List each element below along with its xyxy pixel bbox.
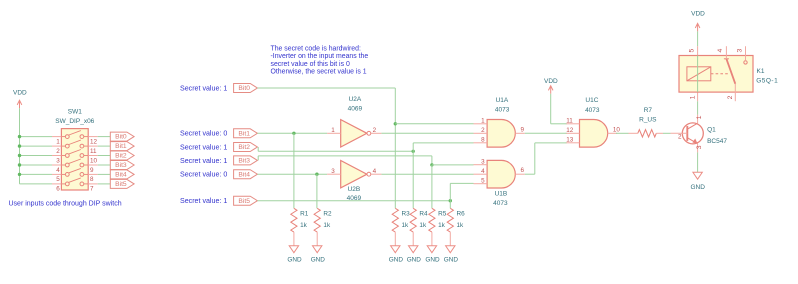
SW1 switch element 4 xyxy=(61,164,65,166)
wire Bit1 to U2A input xyxy=(257,132,327,134)
wire R5 column xyxy=(431,165,433,208)
svg-text:3: 3 xyxy=(331,168,335,175)
svg-text:3: 3 xyxy=(56,157,60,164)
svg-text:4: 4 xyxy=(56,167,60,174)
wire VDD through relay (coil column) xyxy=(697,56,699,93)
U2A pin 2 (output) xyxy=(371,132,382,134)
wire Bit0 vertical down R3 column xyxy=(394,88,396,208)
wire Bit0 horizontal xyxy=(257,87,395,89)
hierarchical label Bit2 (at SW1) xyxy=(110,151,134,160)
junction VDD bus row4 xyxy=(18,163,21,166)
relay pin 4 xyxy=(725,46,727,59)
svg-text:6: 6 xyxy=(521,167,525,174)
svg-text:Bit4: Bit4 xyxy=(115,172,127,179)
op-amp/inverter U2B 4069 xyxy=(341,161,367,188)
resistor R6 1k xyxy=(447,208,453,232)
Q1 pin 1 (collector) xyxy=(687,123,697,129)
svg-text:Bit2: Bit2 xyxy=(238,144,250,151)
wire SW1 pin 8 to label Bit4 xyxy=(98,173,111,175)
svg-text:Secret value: 1: Secret value: 1 xyxy=(180,157,227,165)
svg-text:3: 3 xyxy=(696,145,703,149)
relay contact circle + pin 3 xyxy=(744,61,747,64)
svg-text:2: 2 xyxy=(373,127,377,134)
resistor R7 R_US xyxy=(629,132,638,134)
svg-text:5: 5 xyxy=(481,177,485,184)
junction Bit3/R5 xyxy=(430,163,433,166)
svg-text:1k: 1k xyxy=(402,222,410,229)
hierarchical label Bit0 (logic side) xyxy=(234,84,258,93)
wire VDD down to U1C pin 11 row xyxy=(550,94,552,124)
svg-text:10: 10 xyxy=(613,126,621,133)
wire U1B output right xyxy=(525,173,535,175)
svg-text:Bit4: Bit4 xyxy=(238,171,250,178)
wire to U1C pin 13 xyxy=(535,142,567,144)
svg-text:2: 2 xyxy=(481,127,485,134)
U1C pin 13 (input) xyxy=(566,142,580,144)
wire R4 to GND xyxy=(412,232,414,246)
svg-text:3: 3 xyxy=(736,48,743,52)
svg-text:1k: 1k xyxy=(438,222,446,229)
svg-text:R1: R1 xyxy=(300,211,309,218)
svg-text:GND: GND xyxy=(690,184,705,191)
svg-text:GND: GND xyxy=(425,257,440,264)
svg-text:4073: 4073 xyxy=(493,200,508,207)
svg-text:-Inverter on the input means t: -Inverter on the input means the xyxy=(271,53,369,60)
SW1 pin 8 (right) xyxy=(88,173,98,175)
wire Bit3 down to U1B pin3 row xyxy=(431,156,433,165)
svg-text:Bit3: Bit3 xyxy=(115,162,127,169)
hierarchical label Bit4 (at SW1) xyxy=(110,170,134,179)
wire Bit5 horizontal xyxy=(257,200,450,202)
wire Bit2 jog at label xyxy=(257,147,259,151)
svg-text:U2A: U2A xyxy=(349,96,362,103)
svg-text:2: 2 xyxy=(56,148,60,155)
Q1 pin 2 (base) xyxy=(671,132,688,134)
svg-text:12: 12 xyxy=(90,138,98,145)
svg-text:11: 11 xyxy=(566,118,573,125)
U1C pin 10 (output) xyxy=(608,132,618,134)
transistor Q1 BC547 xyxy=(682,123,703,144)
ground symbol under Q1 xyxy=(693,172,702,179)
svg-text:BC547: BC547 xyxy=(707,138,727,145)
op-amp/inverter U2A 4069 xyxy=(341,120,367,147)
svg-text:Bit5: Bit5 xyxy=(238,198,250,205)
wire SW1 pin 10 to label Bit2 xyxy=(98,155,111,157)
SW1 switch element 5 xyxy=(61,173,65,175)
svg-text:1: 1 xyxy=(689,95,696,99)
ground symbol under R2 xyxy=(313,246,322,253)
svg-text:GND: GND xyxy=(389,257,404,264)
svg-text:R2: R2 xyxy=(323,211,332,218)
svg-text:Secret value: 0: Secret value: 0 xyxy=(180,171,227,179)
relay pin 5 xyxy=(697,46,699,55)
svg-text:5: 5 xyxy=(56,176,60,183)
svg-text:Otherwise, the secret value is: Otherwise, the secret value is 1 xyxy=(271,68,367,75)
Q1 pin 3 (emitter) xyxy=(687,138,697,144)
svg-text:VDD: VDD xyxy=(13,89,27,96)
wire Bit2 horizontal xyxy=(258,150,413,152)
svg-text:Bit5: Bit5 xyxy=(115,181,127,188)
SW1 switch element 6 xyxy=(61,183,65,185)
SW1 pin 2 (left) xyxy=(52,145,61,147)
wire to U1B pin 3 xyxy=(432,164,474,166)
resistor R3 1k xyxy=(392,208,398,232)
wire to U1A pin 1 xyxy=(395,123,473,125)
junction VDD bus row2 xyxy=(18,144,21,147)
wire Bit4 to U2B input xyxy=(257,173,327,175)
svg-text:R_US: R_US xyxy=(639,117,657,124)
svg-text:8: 8 xyxy=(481,137,485,144)
svg-text:7: 7 xyxy=(90,186,94,193)
wire R6 column xyxy=(449,201,451,209)
ground symbol under R1 xyxy=(289,246,298,253)
relay switch blade xyxy=(724,58,729,60)
wire VDD vertical bus to DIP switch inputs xyxy=(19,108,21,184)
junction Bit4/R2 xyxy=(315,173,318,176)
SW1 pin 1 (left) xyxy=(52,136,61,138)
svg-text:10: 10 xyxy=(90,157,98,164)
U1A pin 9 (output) xyxy=(515,132,525,134)
hierarchical label Bit3 (at SW1) xyxy=(110,161,134,170)
junction Bit0/U1A pin1 xyxy=(394,122,397,125)
hierarchical label Bit5 (logic side) xyxy=(234,196,258,205)
svg-text:1: 1 xyxy=(331,127,335,134)
wire Q1 collector to relay pin 1 xyxy=(697,101,699,114)
U1B pin 5 (input) xyxy=(474,183,488,185)
SW1 switch element 2 xyxy=(61,145,65,147)
wire Bit3 jog at label xyxy=(257,156,259,161)
svg-text:1: 1 xyxy=(696,115,703,119)
svg-text:4: 4 xyxy=(481,168,485,175)
svg-text:2: 2 xyxy=(727,95,734,99)
SW1 pin 4 (left) xyxy=(52,164,61,166)
svg-text:4: 4 xyxy=(717,48,724,52)
U2A pin 1 (input) xyxy=(327,132,341,134)
U2B pin 4 (output) xyxy=(371,173,382,175)
junction VDD bus row1 xyxy=(18,135,21,138)
svg-text:R5: R5 xyxy=(438,211,447,218)
svg-text:Secret value: 1: Secret value: 1 xyxy=(180,143,227,151)
svg-text:User inputs code through DIP s: User inputs code through DIP switch xyxy=(9,200,122,207)
svg-text:5: 5 xyxy=(688,48,695,52)
wire R6 to GND xyxy=(449,232,451,246)
wire Bit2 up to U1A pin8 row xyxy=(412,143,414,151)
svg-text:K1: K1 xyxy=(757,68,765,75)
svg-text:GND: GND xyxy=(444,257,459,264)
SW1 switch element 3 xyxy=(61,155,65,157)
SW1 pin 5 (left) xyxy=(52,173,61,175)
U2B pin 3 (input) xyxy=(327,173,341,175)
wire U2B output to U1B pin 4 xyxy=(381,173,473,175)
junction VDD bus row5 xyxy=(18,173,21,176)
wire R3 to GND xyxy=(394,232,396,246)
svg-text:Secret value: 1: Secret value: 1 xyxy=(180,197,227,205)
svg-text:6: 6 xyxy=(56,186,60,193)
svg-text:R3: R3 xyxy=(402,211,411,218)
relay coil xyxy=(687,67,711,81)
wire VDD to relay pin 5 xyxy=(697,31,699,46)
U1C pin 12 (input) xyxy=(566,132,580,134)
svg-text:GND: GND xyxy=(287,257,302,264)
relay K1 G5Q-1 body xyxy=(679,56,753,93)
svg-text:3: 3 xyxy=(481,158,485,165)
wire Bit5 up to U1B pin5 row xyxy=(449,183,451,200)
wire U1A output to U1C pin 12 xyxy=(525,132,567,134)
wire VDD branch row2 xyxy=(20,145,53,147)
svg-text:Q1: Q1 xyxy=(707,126,716,133)
U1A pin 2 (input) xyxy=(474,132,488,134)
hierarchical label Bit1 (logic side) xyxy=(234,129,258,138)
svg-text:Secret value: 0: Secret value: 0 xyxy=(180,130,227,138)
svg-text:U1A: U1A xyxy=(496,97,509,104)
wire SW1 pin 12 to label Bit0 xyxy=(98,136,111,138)
svg-text:U2B: U2B xyxy=(348,186,361,193)
wire to U1A pin 8 xyxy=(413,142,473,144)
svg-text:The secret code is hardwired:: The secret code is hardwired: xyxy=(271,46,361,53)
svg-text:GND: GND xyxy=(311,257,326,264)
svg-text:1k: 1k xyxy=(457,222,465,229)
ground symbol under R5 xyxy=(427,246,436,253)
svg-text:R6: R6 xyxy=(457,211,466,218)
svg-text:Bit3: Bit3 xyxy=(238,158,250,165)
and-gate U1A 4073 body xyxy=(487,120,515,148)
resistor R5 1k xyxy=(429,208,435,232)
svg-text:1k: 1k xyxy=(419,222,427,229)
wire R1 column xyxy=(293,133,295,208)
svg-text:secret value of this bit is 0: secret value of this bit is 0 xyxy=(271,61,350,68)
svg-text:4: 4 xyxy=(373,168,377,175)
svg-text:8: 8 xyxy=(90,176,94,183)
and-gate U1B 4073 body xyxy=(487,160,515,188)
ground symbol under R6 xyxy=(446,246,455,253)
SW1 pin 9 (right) xyxy=(88,164,98,166)
svg-text:1: 1 xyxy=(481,118,485,125)
svg-text:Bit0: Bit0 xyxy=(115,134,127,141)
SW1 pin 12 (right) xyxy=(88,136,98,138)
wire R2 to GND xyxy=(316,232,318,246)
svg-text:1k: 1k xyxy=(323,222,331,229)
resistor R1 1k xyxy=(291,208,297,232)
svg-text:U1C: U1C xyxy=(585,97,598,104)
relay linkage dashed line xyxy=(711,73,730,75)
svg-text:VDD: VDD xyxy=(691,11,705,18)
svg-text:12: 12 xyxy=(566,127,574,134)
svg-text:Bit0: Bit0 xyxy=(238,85,250,92)
hierarchical label Bit1 (at SW1) xyxy=(110,142,134,151)
resistor R2 1k xyxy=(314,208,320,232)
wire VDD branch row5 xyxy=(20,173,53,175)
wire VDD branch row1 xyxy=(20,136,53,138)
wire VDD branch row4 xyxy=(20,164,53,166)
ground symbol under R3 xyxy=(391,246,400,253)
wire Bit3 horizontal xyxy=(258,155,432,157)
SW1 pin 10 (right) xyxy=(88,155,98,157)
resistor R4 1k xyxy=(410,208,416,232)
ground symbol under R4 xyxy=(409,246,418,253)
wire U1B output up xyxy=(534,143,536,174)
wire to U1B pin 5 xyxy=(450,182,473,184)
SW1 switch element 1 xyxy=(61,136,65,138)
wire SW1 pin 9 to label Bit3 xyxy=(98,164,111,166)
svg-text:GND: GND xyxy=(407,257,422,264)
hierarchical label Bit5 (at SW1) xyxy=(110,179,134,188)
SW1 pin 11 (right) xyxy=(88,145,98,147)
junction Bit1/R1 xyxy=(292,132,295,135)
U1B pin 6 (output) xyxy=(515,173,525,175)
wire SW1 pin 7 to label Bit5 xyxy=(98,183,111,185)
wire VDD branch row3 xyxy=(20,155,53,157)
svg-text:Bit1: Bit1 xyxy=(238,130,250,137)
svg-text:VDD: VDD xyxy=(544,78,558,85)
U1B pin 3 (input) xyxy=(474,164,488,166)
junction VDD bus row3 xyxy=(18,154,21,157)
wire U2A output to U1A pin 2 xyxy=(381,132,473,134)
svg-text:11: 11 xyxy=(90,148,97,155)
svg-text:G5Q-1: G5Q-1 xyxy=(756,78,778,85)
SW1 pin 7 (right) xyxy=(88,183,98,185)
wire U1C output to R7 xyxy=(616,132,629,134)
U1A pin 1 (input) xyxy=(474,123,488,125)
hierarchical label Bit3 (logic side) xyxy=(234,156,258,165)
svg-text:Bit2: Bit2 xyxy=(115,153,127,160)
wire VDD branch row6 xyxy=(20,183,53,185)
svg-text:SW_DIP_x06: SW_DIP_x06 xyxy=(55,118,94,125)
hierarchical label Bit2 (logic side) xyxy=(234,143,258,152)
svg-text:9: 9 xyxy=(90,167,94,174)
wire Q1 emitter to GND xyxy=(697,152,699,172)
svg-text:U1B: U1B xyxy=(495,191,508,198)
wire SW1 pin 11 to label Bit1 xyxy=(98,145,111,147)
svg-text:4069: 4069 xyxy=(347,195,362,202)
svg-text:R7: R7 xyxy=(644,107,653,114)
U1C pin 11 (input) xyxy=(566,123,580,125)
svg-text:9: 9 xyxy=(521,126,525,133)
svg-text:Bit1: Bit1 xyxy=(115,143,127,150)
junction Bit5/R6 xyxy=(449,199,452,202)
svg-text:1: 1 xyxy=(56,138,60,145)
wire VDD to U1C pin 11 xyxy=(551,123,567,125)
svg-text:2: 2 xyxy=(678,133,682,140)
svg-text:SW1: SW1 xyxy=(68,109,82,116)
hierarchical label Bit4 (logic side) xyxy=(234,170,258,179)
svg-text:R4: R4 xyxy=(419,211,428,218)
SW1 pin 3 (left) xyxy=(52,155,61,157)
U1B pin 4 (input) xyxy=(474,173,488,175)
svg-text:4069: 4069 xyxy=(348,105,363,112)
U1A pin 8 (input) xyxy=(474,142,488,144)
svg-text:Secret value: 1: Secret value: 1 xyxy=(180,84,227,92)
SW1 pin 6 (left) xyxy=(52,183,61,185)
wire R4 column xyxy=(412,151,414,208)
svg-text:13: 13 xyxy=(566,137,574,144)
DIP switch SW1 body xyxy=(61,129,88,190)
wire R5 to GND xyxy=(431,232,433,246)
and-gate U1C 4073 body xyxy=(580,120,608,148)
wire R2 column xyxy=(316,174,318,208)
svg-text:4073: 4073 xyxy=(495,107,510,114)
relay pin 2 xyxy=(734,84,736,101)
hierarchical label Bit0 (at SW1) xyxy=(110,132,134,141)
junction Bit2/R4 xyxy=(412,150,415,153)
relay K1 pin 1 xyxy=(697,92,699,101)
svg-text:1k: 1k xyxy=(300,222,308,229)
wire R7 to Q1 base xyxy=(663,132,671,134)
svg-text:4073: 4073 xyxy=(585,107,600,114)
wire R1 to GND xyxy=(293,232,295,246)
